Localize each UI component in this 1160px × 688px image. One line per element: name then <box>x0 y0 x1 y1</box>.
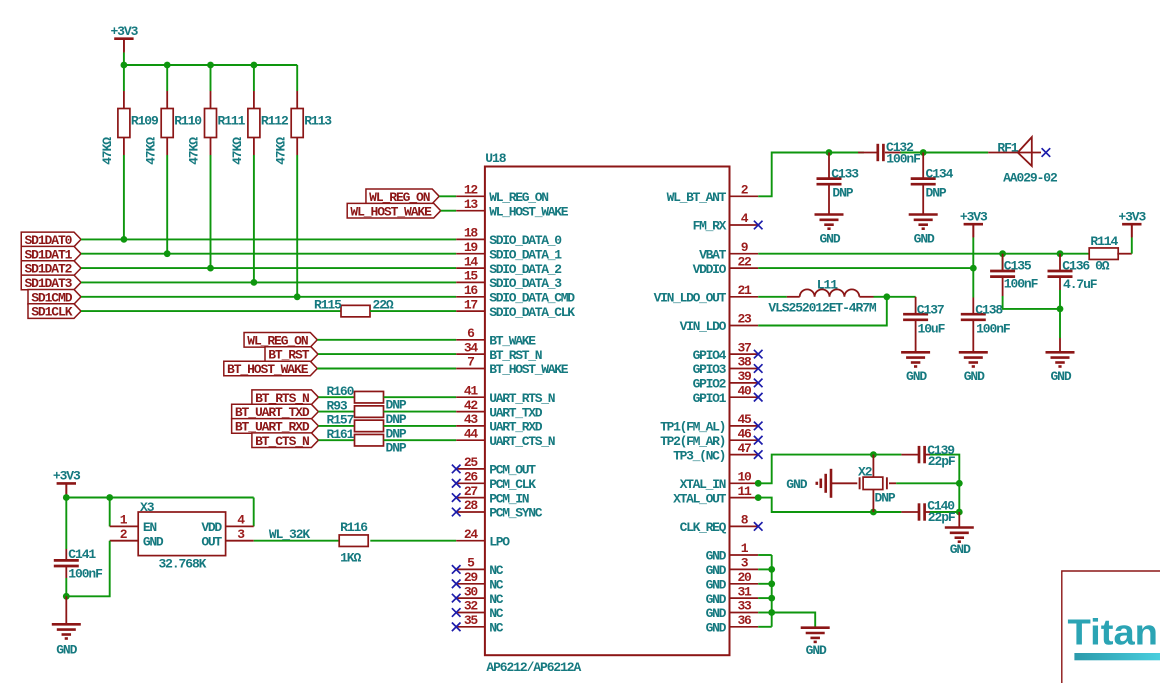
svg-text:47KΩ: 47KΩ <box>230 137 245 165</box>
svg-text:WL_32K: WL_32K <box>269 527 311 542</box>
svg-text:22pF: 22pF <box>928 510 956 525</box>
svg-text:1KΩ: 1KΩ <box>340 551 361 566</box>
svg-text:CLK_REQ: CLK_REQ <box>680 520 727 535</box>
svg-text:AA029-02: AA029-02 <box>1003 170 1058 185</box>
svg-text:GND: GND <box>914 231 935 246</box>
svg-text:26: 26 <box>464 470 479 485</box>
svg-text:U18: U18 <box>485 151 506 166</box>
svg-text:GND: GND <box>706 578 727 593</box>
svg-text:NC: NC <box>489 621 504 636</box>
svg-text:18: 18 <box>464 226 479 241</box>
svg-text:BT_HOST_WAKE: BT_HOST_WAKE <box>489 362 569 377</box>
svg-text:R115: R115 <box>314 297 342 312</box>
svg-text:R111: R111 <box>218 114 246 129</box>
svg-text:WL_BT_ANT: WL_BT_ANT <box>667 190 727 205</box>
svg-text:NC: NC <box>489 592 504 607</box>
svg-text:WL_HOST_WAKE: WL_HOST_WAKE <box>350 204 432 219</box>
svg-text:29: 29 <box>464 570 479 585</box>
svg-text:SDIO_DATA_2: SDIO_DATA_2 <box>489 262 562 277</box>
svg-text:35: 35 <box>464 613 479 628</box>
svg-text:L11: L11 <box>817 277 838 292</box>
svg-text:36: 36 <box>737 613 752 628</box>
svg-text:DNP: DNP <box>386 412 407 427</box>
svg-text:37: 37 <box>737 340 751 355</box>
svg-text:NC: NC <box>489 578 504 593</box>
svg-text:OUT: OUT <box>201 534 222 549</box>
svg-text:+3V3: +3V3 <box>53 469 81 484</box>
svg-text:23: 23 <box>737 312 752 327</box>
svg-text:SD1CLK: SD1CLK <box>31 305 73 320</box>
svg-text:43: 43 <box>464 412 479 427</box>
svg-text:4.7uF: 4.7uF <box>1063 277 1098 292</box>
svg-text:VDD: VDD <box>201 520 222 535</box>
svg-text:32: 32 <box>464 599 479 614</box>
svg-text:C136: C136 <box>1062 258 1090 273</box>
svg-text:UART_TXD: UART_TXD <box>489 405 543 420</box>
svg-text:12: 12 <box>464 183 479 198</box>
svg-text:20: 20 <box>737 570 752 585</box>
svg-text:LPO: LPO <box>489 534 510 549</box>
svg-text:WL_REG_ON: WL_REG_ON <box>489 190 548 205</box>
svg-text:TP2(FM_AR): TP2(FM_AR) <box>660 434 725 449</box>
svg-text:47KΩ: 47KΩ <box>143 137 158 165</box>
svg-text:R110: R110 <box>174 114 202 129</box>
svg-text:GND: GND <box>906 369 927 384</box>
svg-text:GND: GND <box>706 621 727 636</box>
svg-text:SDIO_DATA_1: SDIO_DATA_1 <box>489 247 562 262</box>
svg-text:45: 45 <box>737 412 752 427</box>
svg-text:C137: C137 <box>917 303 944 318</box>
svg-text:PCM_IN: PCM_IN <box>489 491 529 506</box>
svg-text:16: 16 <box>464 283 479 298</box>
svg-text:R112: R112 <box>261 114 289 129</box>
svg-text:R157: R157 <box>327 413 354 428</box>
svg-text:DNP: DNP <box>832 186 853 201</box>
svg-text:17: 17 <box>464 297 478 312</box>
svg-text:XTAL_OUT: XTAL_OUT <box>673 491 727 506</box>
svg-text:GND: GND <box>706 563 727 578</box>
svg-text:13: 13 <box>464 197 479 212</box>
svg-text:GND: GND <box>806 643 827 658</box>
svg-text:DNP: DNP <box>386 426 407 441</box>
svg-text:R93: R93 <box>327 398 348 413</box>
svg-text:33: 33 <box>737 599 752 614</box>
svg-text:GND: GND <box>143 534 164 549</box>
svg-text:+3V3: +3V3 <box>1118 209 1146 224</box>
svg-text:40: 40 <box>737 383 752 398</box>
svg-text:42: 42 <box>464 398 479 413</box>
svg-text:GPIO4: GPIO4 <box>693 348 727 363</box>
svg-text:BT_WAKE: BT_WAKE <box>489 334 536 349</box>
svg-text:32.768K: 32.768K <box>158 557 206 572</box>
svg-text:100nF: 100nF <box>886 151 921 166</box>
svg-text:34: 34 <box>464 340 479 355</box>
svg-text:UART_RXD: UART_RXD <box>489 420 543 435</box>
svg-text:R161: R161 <box>327 427 355 442</box>
svg-text:X3: X3 <box>140 500 155 515</box>
svg-text:AP6212/AP6212A: AP6212/AP6212A <box>486 660 581 675</box>
svg-text:GND: GND <box>706 592 727 607</box>
svg-text:44: 44 <box>464 426 479 441</box>
svg-text:GPIO2: GPIO2 <box>693 377 727 392</box>
svg-text:0Ω: 0Ω <box>1095 258 1110 273</box>
svg-text:EN: EN <box>143 520 157 535</box>
svg-text:PCM_SYNC: PCM_SYNC <box>489 506 543 521</box>
svg-text:TP1(FM_AL): TP1(FM_AL) <box>660 420 725 435</box>
svg-text:+3V3: +3V3 <box>110 24 138 39</box>
svg-text:GND: GND <box>964 369 985 384</box>
svg-text:SDIO_DATA_CMD: SDIO_DATA_CMD <box>489 291 575 306</box>
svg-text:GND: GND <box>950 542 971 557</box>
svg-text:100nF: 100nF <box>976 322 1011 337</box>
svg-text:Titan: Titan <box>1068 611 1159 652</box>
svg-text:41: 41 <box>464 383 479 398</box>
svg-text:11: 11 <box>737 484 752 499</box>
svg-text:100nF: 100nF <box>68 566 103 581</box>
svg-text:10: 10 <box>737 470 752 485</box>
svg-text:10uF: 10uF <box>918 322 946 337</box>
svg-text:RF1: RF1 <box>997 141 1018 156</box>
svg-text:GND: GND <box>1050 369 1071 384</box>
svg-text:22Ω: 22Ω <box>373 297 394 312</box>
svg-text:19: 19 <box>464 240 479 255</box>
svg-text:DNP: DNP <box>875 490 896 505</box>
svg-text:28: 28 <box>464 498 479 513</box>
svg-text:GND: GND <box>786 477 807 492</box>
svg-text:R116: R116 <box>340 520 368 535</box>
svg-text:GND: GND <box>819 231 840 246</box>
svg-text:C138: C138 <box>975 303 1003 318</box>
svg-text:C141: C141 <box>68 547 96 562</box>
svg-text:R160: R160 <box>327 384 355 399</box>
svg-text:31: 31 <box>737 584 752 599</box>
svg-text:XTAL_IN: XTAL_IN <box>680 477 726 492</box>
svg-text:39: 39 <box>737 369 752 384</box>
svg-text:VBAT: VBAT <box>699 247 727 262</box>
svg-text:14: 14 <box>464 254 479 269</box>
svg-text:BT_CTS_N: BT_CTS_N <box>255 434 309 449</box>
svg-text:BT_RST_N: BT_RST_N <box>489 348 542 363</box>
svg-text:7: 7 <box>467 355 474 370</box>
svg-text:47KΩ: 47KΩ <box>100 137 115 165</box>
svg-text:GPIO3: GPIO3 <box>693 362 727 377</box>
svg-text:47: 47 <box>737 441 751 456</box>
svg-text:PCM_OUT: PCM_OUT <box>489 463 536 478</box>
svg-text:X2: X2 <box>858 465 873 480</box>
svg-text:FM_RX: FM_RX <box>693 219 727 234</box>
svg-text:NC: NC <box>489 606 504 621</box>
svg-text:UART_RTS_N: UART_RTS_N <box>489 391 555 406</box>
svg-text:46: 46 <box>737 426 752 441</box>
svg-text:R114: R114 <box>1090 234 1118 249</box>
svg-text:VIN_LDO: VIN_LDO <box>680 319 727 334</box>
svg-text:47KΩ: 47KΩ <box>187 137 202 165</box>
svg-text:C134: C134 <box>926 166 954 181</box>
svg-text:R113: R113 <box>304 114 332 129</box>
svg-text:VIN_LDO_OUT: VIN_LDO_OUT <box>654 291 727 306</box>
svg-text:22pF: 22pF <box>928 454 956 469</box>
svg-text:C133: C133 <box>831 166 859 181</box>
svg-text:22: 22 <box>737 254 752 269</box>
svg-text:GND: GND <box>56 642 77 657</box>
svg-text:+3V3: +3V3 <box>960 209 988 224</box>
svg-text:25: 25 <box>464 455 479 470</box>
svg-text:WL_HOST_WAKE: WL_HOST_WAKE <box>489 204 569 219</box>
svg-text:DNP: DNP <box>926 186 947 201</box>
svg-text:GND: GND <box>706 606 727 621</box>
svg-text:R109: R109 <box>131 114 159 129</box>
svg-text:38: 38 <box>737 355 752 370</box>
svg-text:GND: GND <box>706 549 727 564</box>
svg-text:SDIO_DATA_0: SDIO_DATA_0 <box>489 233 562 248</box>
svg-text:GPIO1: GPIO1 <box>693 391 727 406</box>
svg-text:24: 24 <box>464 527 479 542</box>
svg-text:21: 21 <box>737 283 752 298</box>
svg-text:BT_HOST_WAKE: BT_HOST_WAKE <box>227 362 309 377</box>
svg-text:C135: C135 <box>1004 258 1032 273</box>
svg-text:15: 15 <box>464 269 479 284</box>
svg-text:NC: NC <box>489 563 504 578</box>
svg-text:UART_CTS_N: UART_CTS_N <box>489 434 555 449</box>
svg-text:DNP: DNP <box>386 398 407 413</box>
svg-text:47KΩ: 47KΩ <box>273 137 288 165</box>
svg-text:VLS252012ET-4R7M: VLS252012ET-4R7M <box>768 300 877 315</box>
svg-text:100nF: 100nF <box>1004 276 1039 291</box>
svg-text:VDDIO: VDDIO <box>693 262 727 277</box>
svg-text:TP3_(NC): TP3_(NC) <box>673 448 725 463</box>
svg-text:30: 30 <box>464 584 479 599</box>
svg-text:SDIO_DATA_CLK: SDIO_DATA_CLK <box>489 305 575 320</box>
svg-text:DNP: DNP <box>386 441 407 456</box>
svg-text:PCM_CLK: PCM_CLK <box>489 477 536 492</box>
svg-text:SDIO_DATA_3: SDIO_DATA_3 <box>489 276 562 291</box>
svg-text:27: 27 <box>464 484 478 499</box>
